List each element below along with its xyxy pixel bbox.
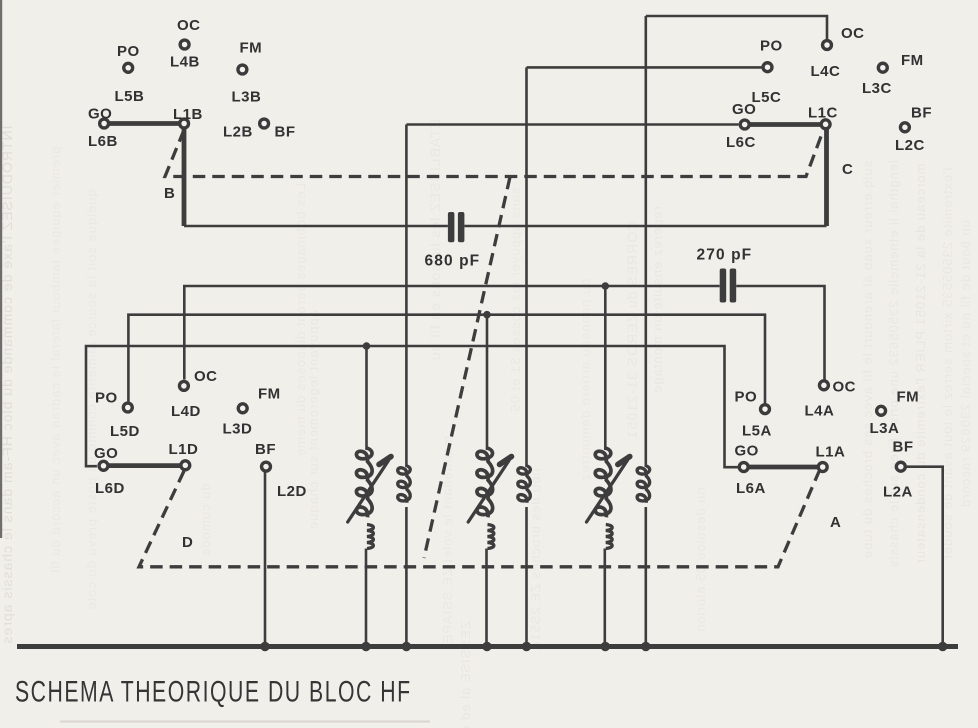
svg-text:L4A: L4A: [805, 403, 835, 420]
svg-text:FM: FM: [901, 52, 924, 69]
dashed link wiper D to wiper A: [139, 471, 819, 567]
svg-text:appuyant legerement sur chaque: appuyant legerement sur chaque: [306, 310, 321, 530]
inductor T2b fixed coil: [518, 466, 530, 503]
contact BF_D: [262, 462, 271, 471]
switch C wiper GO-L1C: [745, 122, 826, 127]
svg-text:L4D: L4D: [171, 403, 201, 420]
contact GO_D: [99, 461, 108, 470]
wire bus2 right segment (270pF to OC_A corner): [736, 286, 824, 380]
contact BF_C: [900, 123, 909, 132]
svg-text:680 pF: 680 pF: [425, 253, 481, 270]
svg-text:OC: OC: [194, 368, 218, 385]
svg-text:CORRES du ZEROS 31-21051: CORRES du ZEROS 31-21051: [624, 221, 640, 440]
svg-text:PO: PO: [760, 38, 783, 55]
contact FM_A: [877, 406, 886, 415]
node junction ground bus x=645.8: [641, 642, 650, 651]
node junction ground bus x=366: [361, 642, 370, 651]
svg-text:FM: FM: [258, 386, 281, 403]
svg-text:BF: BF: [255, 441, 276, 458]
svg-text:L1C: L1C: [808, 105, 838, 122]
wire bus1 left segment (L1B drop to 680pF): [184, 225, 448, 228]
svg-text:sulq erreur xuab al arendurt l: sulq erreur xuab al arendurt le fil avec…: [860, 161, 875, 559]
contact PO_D: [123, 403, 132, 412]
svg-text:L5B: L5B: [115, 88, 145, 105]
svg-text:BF: BF: [911, 105, 932, 122]
svg-text:BF: BF: [893, 439, 914, 456]
wire bus3 (PO_D corner to PO_A corner): [128, 315, 765, 404]
svg-text:premier equipee tambour latera: premier equipee tambour lateral le cadra…: [48, 146, 63, 573]
node junction ground bus x=487: [482, 642, 491, 651]
svg-text:du cumode: du cumode: [198, 483, 213, 556]
svg-text:GO: GO: [88, 106, 112, 123]
wire bus2 left segment (OC_D corner to 270pF): [184, 286, 719, 380]
svg-text:A: A: [830, 514, 841, 531]
svg-text:L3C: L3C: [862, 80, 892, 97]
svg-text:L5A: L5A: [742, 423, 772, 440]
wire coil T3b lower lead: [644, 507, 647, 647]
node junction ground bus x=406.4: [402, 642, 411, 651]
svg-text:L6C: L6C: [726, 134, 756, 151]
svg-text:OC: OC: [177, 17, 201, 34]
svg-text:morceau de la 21-21051 PLIER l: morceau de la 21-21051 PLIER l'extremite…: [913, 163, 928, 564]
switch B wiper GO-L1B: [104, 121, 184, 126]
wire PO_C feed: corner x=526.5 to PO_C: [527, 66, 762, 69]
svg-text:FM: FM: [240, 40, 263, 57]
dashed shaft link diagonal: [424, 177, 510, 558]
contact PO_A: [761, 405, 770, 414]
contact L1A: [818, 463, 827, 472]
node junction ground bus x=605.3: [601, 642, 610, 651]
svg-text:B: B: [164, 185, 175, 202]
svg-text:GO: GO: [735, 443, 759, 460]
svg-text:du panneau arriere demontrez: du panneau arriere demontrez: [578, 279, 593, 482]
svg-text:ZESSISE al ed eugif: ZESSISE al ed eugif: [458, 621, 473, 728]
wire L1B drop (thick) from L1B to bus1: [182, 126, 187, 226]
wire coil T2b lower lead: [525, 507, 528, 647]
scan bottom faint line: [60, 721, 430, 723]
wire vertical net x=526.5 down to coil T2b: [525, 67, 528, 467]
svg-text:reperez ensuite un montage: reperez ensuite un montage: [650, 206, 665, 394]
svg-text:sans appuyer les cosses 31 et: sans appuyer les cosses 31 et 05: [508, 188, 523, 413]
svg-text:L3D: L3D: [223, 421, 253, 438]
svg-text:PO: PO: [117, 43, 140, 60]
svg-text:nu desolou 05 alurion: nu desolou 05 alurion: [693, 487, 708, 632]
svg-text:INTRODUISEZ l'axe de commande: INTRODUISEZ l'axe de commande du bloc HF…: [0, 126, 15, 645]
svg-text:BF: BF: [275, 124, 296, 141]
contact FM_D: [238, 404, 247, 413]
contact OC_B: [180, 40, 189, 49]
svg-text:FM: FM: [897, 389, 920, 406]
contact FM_C: [878, 63, 887, 72]
svg-text:GO: GO: [94, 445, 118, 462]
node junction bus3/coil T2a: [483, 311, 491, 319]
svg-text:C: C: [842, 161, 853, 178]
inductor T3b fixed coil: [637, 466, 649, 503]
svg-text:L2A: L2A: [883, 484, 913, 501]
svg-text:PO: PO: [735, 389, 758, 406]
svg-text:L2B: L2B: [223, 124, 253, 141]
inductor T2a variable coil with core: [486, 315, 489, 450]
contact OC_C: [823, 41, 832, 50]
node junction ground bus x=526.5: [522, 642, 531, 651]
switch D wiper GO-L1D: [104, 463, 186, 468]
wire BF_A lead right and down to ground bus: [907, 467, 943, 647]
svg-text:L1B: L1B: [173, 106, 203, 123]
svg-text:L2C: L2C: [895, 137, 925, 154]
contact PO_B: [124, 63, 133, 72]
inductor T3a variable coil with core: [604, 286, 607, 450]
wire L1C drop (thick) from L1C to bus1: [824, 126, 829, 226]
svg-text:L6B: L6B: [88, 133, 118, 150]
svg-text:D: D: [182, 534, 193, 551]
wire coil T1b lower lead: [405, 507, 408, 647]
svg-text:270 pF: 270 pF: [697, 247, 753, 264]
svg-text:OC: OC: [833, 379, 857, 396]
svg-text:OC: OC: [841, 25, 865, 42]
wire vertical net x=645.8 (top bus down to coil T3b): [644, 16, 647, 467]
contact L1C: [821, 120, 830, 129]
wire ground bus (bottom): [17, 644, 958, 649]
contact L1B: [180, 119, 189, 128]
contact PO_C: [763, 63, 772, 72]
node junction ground bus x=942.7: [938, 642, 947, 651]
contact GO_A: [739, 463, 748, 472]
svg-text:L5D: L5D: [110, 423, 140, 440]
node junction bus4/coil T1a: [363, 342, 371, 350]
svg-text:L3B: L3B: [232, 89, 262, 106]
inductor T1a variable coil with core: [365, 346, 368, 450]
contact GO_B: [100, 119, 109, 128]
svg-text:maintenant le volet ZE SSIAPE: maintenant le volet ZE SSIAPE: [440, 436, 455, 645]
wire GO_C feed: corner x=406.4 to GO_C: [406, 123, 738, 126]
svg-text:L2D: L2D: [277, 483, 307, 500]
svg-text:ETABLISSEZ les liaisons en fil: ETABLISSEZ les liaisons en fil nu: [427, 119, 443, 361]
svg-text:PO: PO: [95, 390, 118, 407]
svg-text:L3A: L3A: [870, 420, 900, 437]
contact GO_C: [740, 120, 749, 129]
inductor T1b fixed coil: [398, 466, 410, 503]
scan edge bar left: [0, 0, 2, 538]
dashed link wiper B to wiper C: [165, 130, 823, 177]
wire bus1 right segment (680pF to L1C drop): [464, 225, 826, 228]
svg-text:lengthai li etnemelle 23505632: lengthai li etnemelle 23505632 une prise…: [886, 160, 901, 568]
svg-text:L1A: L1A: [816, 444, 846, 461]
wire bus4 (GO_D corner to GO_A corner): [86, 346, 738, 467]
capacitor C1 680 pF plates: [448, 212, 455, 242]
wire vertical net x=406.4 down to coil T1b: [405, 125, 408, 468]
svg-text:un bout de fil nu et special 2: un bout de fil nu et special 230629 racc…: [958, 220, 973, 508]
svg-text:L1D: L1D: [169, 441, 199, 458]
contact BF_B: [260, 119, 269, 128]
node junction ground bus x=265: [260, 642, 269, 651]
wire BF_D drop to ground bus: [264, 471, 267, 647]
contact OC_D: [179, 381, 188, 390]
node junction bus2/coil T3a: [602, 282, 610, 290]
svg-text:L6A: L6A: [736, 480, 766, 497]
capacitor C2 270 pF plates: [720, 269, 727, 303]
contact L1D: [181, 461, 190, 470]
contact FM_B: [238, 65, 247, 74]
svg-text:L4C: L4C: [811, 63, 841, 80]
svg-text:L6D: L6D: [95, 480, 125, 497]
switch A wiper GO-L1A: [744, 465, 823, 470]
contact OC_A: [819, 381, 828, 390]
svg-text:SCHEMA THEORIQUE DU BLOC HF: SCHEMA THEORIQUE DU BLOC HF: [15, 676, 412, 708]
svg-text:L4B: L4B: [170, 54, 200, 71]
svg-text:GO: GO: [732, 101, 756, 118]
wire top bus (OC_C feed) from vertical x=645.8 to OC_C: [646, 16, 827, 40]
contact BF_A: [896, 462, 905, 471]
